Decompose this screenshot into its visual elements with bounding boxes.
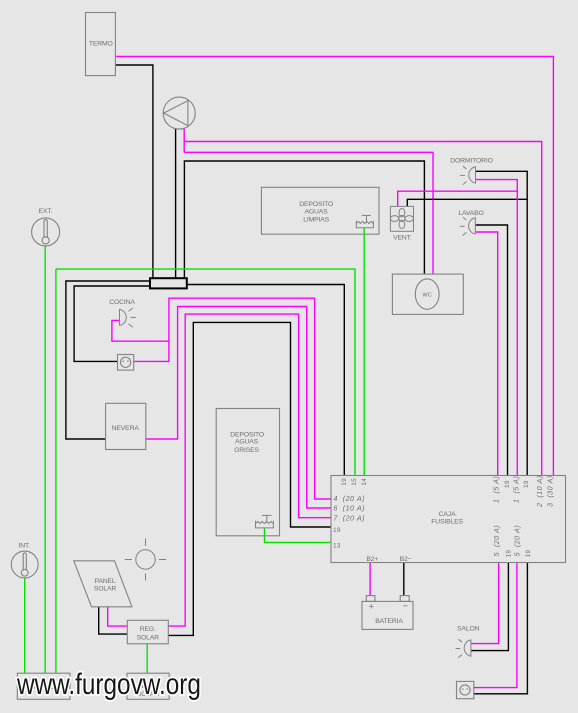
svg-text:B2+: B2+: [366, 556, 378, 563]
wire: SALON lamp negative (black) to pin 19: [471, 563, 509, 651]
svg-text:LIMPIAS: LIMPIAS: [303, 216, 329, 223]
wire: REG. SOLAR positive loop to fuse 7 (20 A) (magenta): [168, 314, 331, 626]
wire: green sensor bus to pin 15: [56, 269, 355, 475]
wire: salon socket negative (black) to pin 19: [474, 563, 528, 694]
svg-text:BATERIA: BATERIA: [375, 618, 403, 625]
fuse box CAJA FUSIBLES: [331, 476, 566, 563]
wire: EXT sensor green: [44, 246, 46, 673]
wire: VENT. positive (magenta): [398, 191, 518, 206]
wire: INT sensor green: [24, 578, 26, 673]
svg-text:19: 19: [506, 550, 513, 558]
svg-text:VENT.: VENT.: [393, 235, 412, 242]
svg-text:1 (5 A): 1 (5 A): [512, 476, 521, 503]
svg-text:15: 15: [351, 478, 358, 486]
wire: magenta branch to fuse 2 (10 A): [184, 142, 542, 476]
water heater TERMO: [86, 13, 116, 76]
solar display box (bottom): [127, 673, 169, 699]
wire: DORMITORIO lamp positive (magenta) to fuse 1 (5 A): [476, 180, 518, 476]
cocina socket outlet: [118, 355, 134, 371]
wire: pump positive (magenta) stub: [183, 128, 185, 152]
svg-text:19: 19: [504, 480, 511, 488]
svg-text:GRISES: GRISES: [234, 447, 259, 454]
level sensor in limpias tank: [356, 215, 373, 227]
svg-text:B2−: B2−: [400, 556, 412, 563]
wire: COCINA lamp branch (magenta): [112, 320, 169, 341]
svg-text:SOLAR: SOLAR: [137, 635, 160, 642]
wire: REG. SOLAR negative loop to pin 19 left (black): [168, 322, 331, 635]
svg-text:SOLAR: SOLAR: [94, 586, 117, 593]
INT temperature probe: [11, 551, 38, 578]
svg-text:19: 19: [525, 550, 532, 558]
svg-text:FUSIBLES: FUSIBLES: [431, 518, 463, 525]
battery BATERIA: [362, 596, 413, 630]
wire: junction bus to fuse box pin 19 top (black): [187, 285, 344, 476]
solar panel PANEL SOLAR: [74, 561, 132, 607]
svg-text:NEVERA: NEVERA: [112, 425, 140, 432]
wire: SALON lamp positive (magenta) to fuse 5 (20 A): [471, 563, 499, 644]
wire: aguas grises level sensor green to pin 13: [265, 528, 332, 543]
svg-text:DORMITORIO: DORMITORIO: [450, 158, 493, 165]
sensor display box (bottom left): [17, 673, 70, 699]
wire: NEVERA positive loop to fuse 6 (10 A) (magenta): [146, 307, 331, 509]
wire: TERMO negative (black) to junction bus: [115, 65, 152, 278]
fridge NEVERA: [106, 403, 146, 449]
toilet WC box: [392, 274, 463, 314]
solar regulator REG. SOLAR: [127, 620, 168, 644]
wire: battery negative B2- (black): [403, 563, 405, 596]
svg-text:4 (20 A): 4 (20 A): [333, 494, 365, 503]
wire: LAVABO lamp positive (magenta) to fuse 1 (5 A): [475, 232, 497, 476]
svg-text:19: 19: [523, 480, 530, 488]
svg-text:CAJA: CAJA: [439, 511, 456, 518]
wire: cocina socket positive loop to fuse 4 (20 A) (magenta): [134, 298, 331, 499]
svg-text:EXT.: EXT.: [39, 208, 53, 215]
svg-text:5 (20 A): 5 (20 A): [492, 525, 501, 557]
svg-text:5 (20 A): 5 (20 A): [513, 525, 522, 557]
svg-text:DEPOSITO: DEPOSITO: [299, 201, 333, 208]
svg-text:−: −: [403, 601, 409, 612]
svg-text:DEPOSITO: DEPOSITO: [230, 431, 264, 438]
svg-text:SALON: SALON: [457, 626, 480, 633]
wire: LAVABO lamp negative (black) to pin 19: [475, 225, 507, 476]
level sensor in grises tank: [256, 515, 274, 528]
svg-text:19: 19: [333, 527, 341, 534]
wire: aguas limpias level sensor green to pin 14: [363, 228, 365, 476]
COCINA lamp: [120, 308, 137, 327]
LAVABO lamp: [460, 217, 475, 235]
wire: junction bus to NEVERA negative (black): [66, 281, 150, 439]
svg-text:1 (5 A): 1 (5 A): [491, 476, 500, 503]
svg-text:www.furgovw.org: www.furgovw.org: [16, 668, 201, 701]
svg-text:LAVABO: LAVABO: [458, 210, 483, 217]
fan VENT.: [390, 206, 413, 231]
svg-text:3 (30 A): 3 (30 A): [545, 475, 554, 507]
svg-text:+: +: [369, 602, 375, 613]
wire: magenta branch to WC: [184, 152, 433, 274]
svg-text:PANEL: PANEL: [94, 578, 115, 585]
sun symbol: [125, 539, 167, 581]
wire: green sensor bus vertical to display box: [55, 269, 57, 673]
svg-text:2 (10 A): 2 (10 A): [535, 475, 544, 508]
svg-text:AGUAS: AGUAS: [235, 439, 259, 446]
tank DEPOSITO AGUAS LIMPIAS: [261, 187, 379, 234]
wire: DORMITORIO lamp negative (black) to pin 19: [476, 171, 528, 475]
wire: VENT. negative (black): [407, 199, 527, 206]
svg-text:6 (10 A): 6 (10 A): [333, 504, 365, 513]
svg-text:TERMO: TERMO: [89, 41, 113, 48]
svg-text:13: 13: [333, 542, 341, 549]
svg-text:WC: WC: [422, 292, 432, 298]
svg-text:14: 14: [361, 478, 368, 486]
svg-text:7 (20 A): 7 (20 A): [333, 514, 365, 523]
tank DEPOSITO AGUAS GRISES: [216, 409, 279, 536]
svg-text:COCINA: COCINA: [109, 299, 135, 306]
salon socket outlet: [457, 681, 474, 698]
wire: REG. SOLAR green to solar display box: [146, 644, 148, 673]
wire: PANEL SOLAR positive (magenta) to REG. SOLAR: [108, 607, 128, 626]
pump P1 (circle with triangle): [163, 97, 195, 129]
wire: WC negative (black) from junction bus: [184, 161, 424, 278]
svg-text:REG.: REG.: [140, 626, 156, 633]
svg-text:AGUAS: AGUAS: [304, 209, 328, 216]
svg-text:19: 19: [341, 478, 348, 486]
wire: salon socket positive (magenta) to fuse 5 (20 A): [474, 563, 517, 688]
EXT temperature probe: [32, 218, 60, 246]
wire: battery positive B2+ (magenta): [369, 563, 371, 596]
wire: pump negative (black) to junction bus: [175, 129, 177, 279]
junction box (negative distribution bus): [150, 278, 187, 288]
wire: TERMO positive (magenta) to fuse 3 (30 A): [115, 56, 553, 475]
wire: junction bus to cocina socket negative (black): [74, 286, 150, 361]
wire: PANEL SOLAR negative (black) to REG. SOLAR: [99, 607, 128, 634]
svg-text:INT.: INT.: [18, 543, 30, 550]
DORMITORIO lamp: [460, 166, 475, 184]
SALON lamp: [456, 639, 471, 657]
